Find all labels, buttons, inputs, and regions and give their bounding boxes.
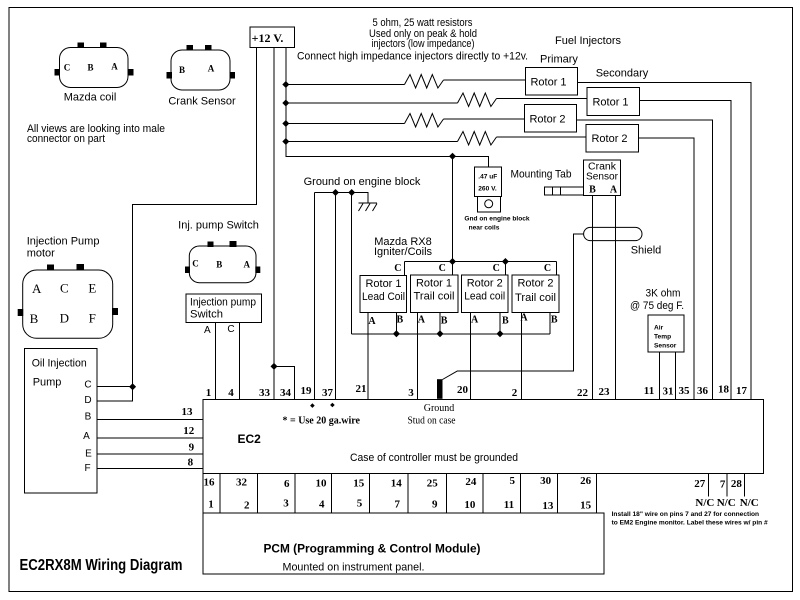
wire coil4 A to EC2 pin 2	[521, 313, 523, 400]
svg-text:Injection Pump: Injection Pump	[27, 236, 100, 248]
svg-text:B: B	[216, 260, 222, 270]
svg-text:B: B	[179, 65, 185, 75]
svg-text:@ 75 deg F.: @ 75 deg F.	[630, 300, 684, 312]
svg-text:11: 11	[644, 385, 654, 397]
note: install 18 inch wires	[612, 511, 768, 527]
coil B ground bus	[352, 333, 550, 335]
svg-text:C: C	[192, 259, 199, 269]
junction engine ground / coil B bus drop	[348, 189, 355, 196]
svg-text:connector on part: connector on part	[27, 133, 105, 145]
wire coil1 A to EC2 pin 21	[367, 313, 369, 400]
note * = Use 20 ga.wire	[283, 403, 361, 427]
EC2 bottom pin numbers	[204, 475, 592, 490]
svg-text:Lead Coil: Lead Coil	[362, 291, 405, 303]
wire crank sensor B to EC2 pin 22	[591, 196, 593, 400]
svg-text:Trail coil: Trail coil	[414, 291, 455, 303]
connector view Inj. pump Switch	[185, 241, 260, 283]
svg-text:Rotor 1: Rotor 1	[366, 278, 402, 290]
coil Rotor 2 Lead coil	[461, 275, 509, 326]
svg-text:Mazda coil: Mazda coil	[64, 91, 117, 103]
svg-text:motor: motor	[27, 248, 55, 260]
wire oil pump B to EC2 pin 13	[97, 419, 203, 421]
junction bus row4	[282, 138, 289, 145]
svg-text:18: 18	[718, 384, 730, 396]
wire engine ground to coil B bus	[351, 193, 353, 334]
svg-text:5: 5	[357, 497, 363, 509]
wire switch C to EC2 pin 4	[239, 323, 241, 400]
svg-text:3: 3	[408, 387, 414, 399]
svg-text:B: B	[87, 63, 93, 73]
svg-text:C: C	[84, 380, 91, 391]
wire +12V left branch to oil pump C/D	[97, 48, 257, 402]
svg-text:Crank Sensor: Crank Sensor	[168, 96, 236, 108]
resistor R4 row4	[286, 132, 586, 146]
svg-text:Secondary: Secondary	[596, 67, 649, 79]
svg-text:3K ohm: 3K ohm	[646, 287, 681, 299]
svg-text:E: E	[88, 280, 96, 295]
svg-text:Mounting Tab: Mounting Tab	[511, 168, 572, 180]
ground stud on EC2 case	[408, 379, 457, 427]
svg-text:Ground: Ground	[424, 403, 455, 414]
svg-text:B: B	[502, 315, 509, 326]
svg-text:C: C	[60, 280, 69, 295]
wire capacitor tap down to coil C bus	[452, 156, 454, 261]
svg-text:33: 33	[259, 387, 271, 399]
svg-text:A: A	[418, 315, 426, 326]
svg-text:B: B	[396, 315, 403, 326]
svg-text:N/C: N/C	[740, 497, 759, 509]
svg-text:B: B	[589, 185, 596, 196]
svg-text:Install 18" wire on pins 7 and: Install 18" wire on pins 7 and 27 for co…	[612, 511, 760, 518]
injector Rotor 2 secondary	[586, 125, 638, 152]
note: resistor usage	[369, 17, 477, 50]
svg-text:Igniter/Coils: Igniter/Coils	[374, 246, 433, 258]
svg-text:26: 26	[580, 475, 592, 487]
svg-text:Sensor: Sensor	[586, 172, 619, 183]
oil injection pump	[25, 348, 98, 493]
svg-text:A: A	[83, 431, 90, 442]
wire coil4 B to ground bus	[549, 313, 551, 334]
wire Rotor1 secondary to EC2 pin 18	[639, 101, 731, 400]
svg-text:25: 25	[427, 477, 439, 489]
svg-text:EC2RX8M Wiring Diagram: EC2RX8M Wiring Diagram	[20, 557, 183, 574]
connector view Mazda coil	[55, 43, 134, 104]
svg-text:B: B	[85, 412, 92, 423]
svg-text:Fuel Injectors: Fuel Injectors	[555, 35, 622, 47]
junction bus row3	[282, 120, 289, 127]
svg-text:Oil Injection: Oil Injection	[32, 358, 87, 370]
wire coil1 B to ground bus	[395, 313, 397, 334]
svg-text:24: 24	[465, 476, 477, 488]
svg-text:C: C	[439, 263, 446, 274]
svg-text:Temp: Temp	[654, 334, 671, 341]
svg-text:* = Use 20 ga.wire: * = Use 20 ga.wire	[283, 416, 361, 427]
svg-text:31: 31	[663, 386, 674, 398]
note: gnd on engine block near coils	[464, 216, 530, 232]
wire oil pump F to EC2 pin 8	[97, 468, 203, 470]
EC2 to PCM interconnect wires	[203, 474, 597, 513]
svg-text:9: 9	[189, 441, 195, 453]
svg-text:22: 22	[577, 387, 589, 399]
svg-text:Trail coil: Trail coil	[515, 292, 556, 304]
svg-text:1: 1	[206, 387, 212, 399]
svg-text:11: 11	[504, 499, 514, 511]
svg-text:13: 13	[182, 406, 194, 418]
svg-text:injectors (low impedance): injectors (low impedance)	[372, 38, 475, 50]
svg-text:3: 3	[283, 497, 289, 509]
svg-text:D: D	[84, 395, 91, 406]
wire shield to ground stud on EC2 case	[457, 234, 583, 371]
sensor air temp 3K ohm	[630, 287, 684, 352]
svg-text:PCM (Programming & Control Mo: PCM (Programming & Control Module)	[264, 542, 481, 556]
svg-text:Rotor 2: Rotor 2	[518, 278, 554, 290]
coil Rotor 2 Trail coil	[512, 275, 559, 326]
svg-text:6: 6	[284, 478, 290, 490]
svg-text:8: 8	[188, 457, 194, 469]
svg-text:Lead coil: Lead coil	[464, 291, 505, 303]
svg-text:A: A	[32, 281, 42, 296]
svg-text:16: 16	[204, 477, 216, 489]
svg-text:9: 9	[432, 498, 438, 510]
svg-text:C: C	[64, 63, 71, 73]
injection pump switch	[186, 294, 262, 336]
svg-text:A: A	[111, 62, 118, 72]
controller EC2	[203, 399, 764, 473]
svg-text:C: C	[544, 263, 551, 274]
svg-text:28: 28	[731, 478, 743, 490]
svg-text:Rotor 1: Rotor 1	[592, 97, 628, 109]
svg-text:37: 37	[322, 387, 334, 399]
svg-text:Rotor 2: Rotor 2	[591, 133, 627, 145]
EC2 pin 7 N/C stub	[717, 474, 736, 509]
coil Rotor 1 Lead Coil	[360, 276, 407, 328]
svg-text:15: 15	[580, 500, 592, 512]
junction at oil pump C	[129, 383, 136, 390]
wire crank sensor A to EC2 pin 23	[614, 196, 616, 400]
coil C feed bus	[394, 262, 556, 277]
svg-text:4: 4	[228, 387, 234, 399]
wire coil3 A to EC2 pin 20	[470, 313, 472, 400]
svg-text:7: 7	[720, 479, 726, 491]
svg-text:Inj. pump Switch: Inj. pump Switch	[178, 220, 259, 232]
wire Rotor2 primary to EC2 pin 36	[577, 120, 713, 399]
svg-text:A: A	[368, 316, 376, 327]
svg-text:32: 32	[236, 476, 248, 488]
svg-text:Sensor: Sensor	[654, 343, 677, 350]
svg-text:30: 30	[540, 475, 552, 487]
junction C bus second	[502, 258, 509, 265]
svg-text:36: 36	[697, 385, 709, 397]
svg-text:Stud on case: Stud on case	[408, 416, 457, 427]
crank sensor CKP	[584, 160, 621, 196]
wire air temp to EC2 pin 11	[658, 352, 660, 399]
svg-text:21: 21	[356, 383, 367, 395]
wire oil pump E to EC2 pin 9	[97, 453, 203, 455]
svg-text:A: A	[204, 325, 211, 336]
svg-text:27: 27	[694, 478, 706, 490]
svg-text:Air: Air	[654, 325, 664, 332]
svg-text:34: 34	[280, 387, 292, 399]
wire switch A to EC2 pin 1	[215, 323, 217, 400]
label Mazda RX8 Igniter/Coils	[374, 236, 433, 258]
wire oil pump A to EC2 pin 12	[97, 437, 203, 439]
svg-text:B: B	[441, 315, 448, 326]
svg-text:A: A	[471, 315, 479, 326]
svg-text:Switch: Switch	[190, 309, 223, 321]
svg-text:Mounted on instrument panel.: Mounted on instrument panel.	[283, 561, 425, 573]
svg-text:EC2: EC2	[238, 432, 262, 446]
node: ground on engine block	[304, 176, 421, 203]
connector view Injection Pump motor	[18, 264, 118, 338]
module PCM	[203, 513, 604, 574]
svg-text:4: 4	[319, 498, 325, 510]
EC2 pin 28 N/C stub	[731, 474, 759, 509]
svg-text:14: 14	[391, 477, 403, 489]
svg-text:35: 35	[679, 385, 691, 397]
wire engine ground to EC2 pin 37	[335, 193, 337, 400]
wire +12V middle branch to EC2 pin 33	[273, 48, 275, 400]
junction at capacitor tap	[449, 153, 456, 160]
PCM pin numbers	[208, 497, 591, 512]
svg-text:N/C: N/C	[695, 497, 714, 509]
connector view Crank Sensor	[167, 45, 236, 108]
svg-text:C: C	[227, 324, 234, 335]
junction bus row1	[282, 81, 289, 88]
svg-text:5: 5	[509, 475, 515, 487]
svg-text:to EM2 Engine monitor. Label: to EM2 Engine monitor. Label these wires…	[612, 519, 768, 526]
svg-text:F: F	[84, 463, 90, 474]
svg-text:2: 2	[512, 387, 518, 399]
junction C bus / capacitor tap	[449, 258, 456, 265]
EC2 top pin numbers	[206, 383, 748, 399]
svg-text:15: 15	[353, 477, 365, 489]
wire Rotor1 primary to EC2 pin 17	[577, 83, 751, 400]
svg-text:19: 19	[301, 385, 313, 397]
svg-text:A: A	[208, 64, 215, 74]
svg-text:Gnd on engine block: Gnd on engine block	[464, 216, 530, 223]
svg-text:Rotor 2: Rotor 2	[529, 113, 565, 125]
wire coil3 B to ground bus	[499, 313, 501, 334]
svg-text:12: 12	[183, 425, 195, 437]
wire coil2 B to ground bus	[439, 313, 441, 334]
shield over crank sensor wires	[584, 227, 662, 256]
svg-text:Pump: Pump	[33, 377, 62, 389]
svg-text:Ground on engine block: Ground on engine block	[304, 176, 421, 188]
chassis ground symbol	[359, 203, 378, 211]
svg-text:17: 17	[736, 385, 748, 397]
svg-text:Rotor 1: Rotor 1	[530, 76, 566, 88]
mounting tab	[511, 168, 584, 195]
resistor R1 (5 ohm 25W) row1	[286, 75, 526, 89]
label Injection Pump motor	[27, 236, 100, 260]
svg-text:13: 13	[542, 500, 554, 512]
junction B2	[437, 330, 444, 337]
svg-text:C: C	[493, 263, 500, 274]
svg-text:Primary: Primary	[540, 53, 578, 65]
svg-text:Connect high impedance injecto: Connect high impedance injectors directl…	[297, 51, 528, 63]
wire Rotor2 secondary to EC2 pin 35	[638, 138, 694, 399]
resistor R3 row3	[286, 114, 525, 128]
wire air temp to EC2 pin 31	[674, 352, 676, 399]
junction engine ground / pin37 wire	[332, 189, 339, 196]
junction B1	[393, 330, 400, 337]
capacitor C1 .47uF 260V	[475, 167, 502, 212]
junction bus row2	[282, 100, 289, 107]
svg-text:Rotor 1: Rotor 1	[416, 278, 452, 290]
svg-text:E: E	[85, 449, 92, 460]
coil Rotor 1 Trail coil	[410, 275, 458, 326]
svg-text:B: B	[551, 315, 558, 326]
power source +12V	[250, 27, 295, 48]
wire branch to EC2 pin 34	[274, 366, 294, 399]
svg-text:Shield: Shield	[631, 244, 662, 256]
svg-text:260 V.: 260 V.	[478, 186, 497, 193]
injector Rotor 1 primary	[525, 68, 577, 96]
svg-text:20: 20	[457, 384, 469, 396]
svg-text:N/C: N/C	[717, 497, 736, 509]
svg-text:B: B	[30, 311, 39, 326]
svg-text:Rotor 2: Rotor 2	[467, 278, 503, 290]
svg-text:.47 uF: .47 uF	[478, 174, 497, 181]
svg-text:23: 23	[599, 386, 611, 398]
svg-text:1: 1	[208, 498, 214, 510]
svg-text:A: A	[610, 185, 618, 196]
note: all views into male connector	[27, 123, 165, 145]
svg-text:2: 2	[244, 500, 250, 512]
EC2 pin 27 N/C stub	[694, 474, 714, 509]
svg-text:Injection pump: Injection pump	[190, 297, 256, 309]
wire coil2 A to EC2 pin 3	[416, 313, 418, 400]
svg-text:Case of controller must be gro: Case of controller must be grounded	[350, 452, 518, 464]
svg-text:+12 V.: +12 V.	[252, 31, 284, 45]
svg-text:near coils: near coils	[469, 225, 500, 232]
svg-text:7: 7	[395, 498, 401, 510]
junction on pin33 wire	[271, 363, 278, 370]
injector Rotor 1 secondary	[587, 88, 639, 116]
wire engine ground to EC2 pin 19	[314, 193, 316, 400]
svg-text:10: 10	[464, 499, 476, 511]
resistor R2 row2	[286, 93, 587, 107]
wire oil pump pin C	[97, 386, 133, 388]
junction B3	[497, 330, 504, 337]
svg-text:F: F	[89, 310, 96, 325]
svg-text:C: C	[394, 263, 401, 274]
wire +12V right bus to resistors and capacitor	[286, 48, 489, 168]
svg-text:D: D	[60, 310, 69, 325]
svg-text:A: A	[243, 260, 250, 270]
svg-text:10: 10	[316, 477, 328, 489]
injector Rotor 2 primary	[524, 105, 576, 132]
